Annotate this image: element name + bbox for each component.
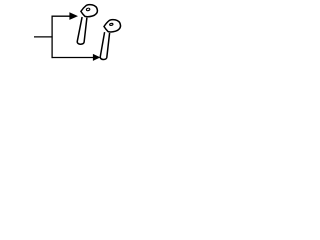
screw S1 shaft — [77, 17, 87, 44]
arrowhead A1 — [69, 12, 78, 20]
screw S2 head — [104, 20, 121, 32]
wire: bottom branch — [52, 57, 95, 59]
screw S2 recess — [109, 23, 113, 26]
screw S1 recess — [86, 8, 90, 11]
wire: left stub — [34, 36, 53, 38]
screw S1 head — [81, 5, 98, 17]
wire: vertical branch — [51, 16, 53, 59]
screw S2 shaft — [100, 32, 109, 59]
wire: top branch — [52, 15, 72, 17]
arrowhead A2 — [93, 54, 101, 61]
